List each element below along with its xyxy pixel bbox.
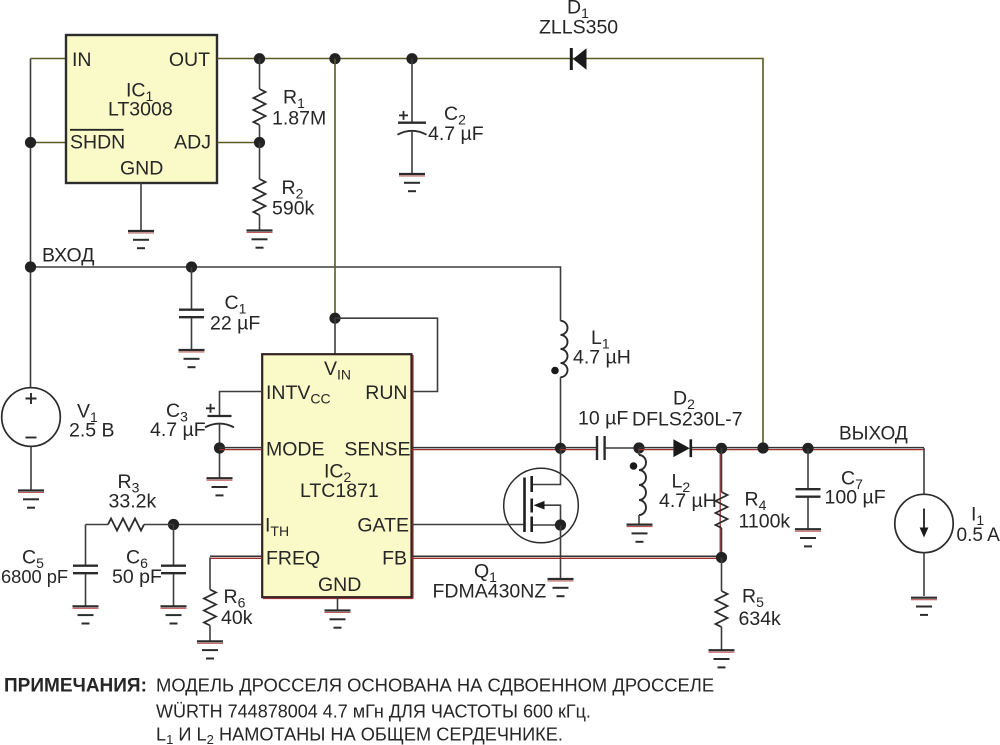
wire: RUN loop xyxy=(335,318,438,391)
svg-text:OUT: OUT xyxy=(169,49,210,71)
svg-text:ZLLS350: ZLLS350 xyxy=(539,16,618,38)
ground: L2 xyxy=(627,525,653,542)
node: OUT/R1 junction xyxy=(254,53,265,64)
node: C2 junction xyxy=(406,53,417,64)
source I1 0.5A xyxy=(895,448,953,596)
wire: MODE stub (red) xyxy=(220,447,263,449)
capacitor C7 xyxy=(807,448,809,488)
ground: IC1 GND xyxy=(128,231,154,248)
wire: SENSE stub (red) xyxy=(412,447,561,449)
capacitor C6 xyxy=(173,525,175,566)
diode D1 ZLLS350 xyxy=(571,48,586,70)
ground: C5 xyxy=(73,606,99,623)
wire: IC1 GND stub xyxy=(140,183,142,231)
wire: input left rail (IN / SHDN / VХОД vertical) xyxy=(30,59,32,389)
ground: Q1 source xyxy=(548,579,574,596)
svg-text:100 µF: 100 µF xyxy=(825,487,886,509)
ground: C1 xyxy=(179,350,205,367)
node: ITH junction xyxy=(168,519,179,530)
svg-text:10 µF: 10 µF xyxy=(578,408,628,430)
wire: VIN stub into IC2 xyxy=(334,318,336,354)
svg-text:GATE: GATE xyxy=(357,515,409,537)
node: L2 junction xyxy=(633,442,644,453)
svg-text:6800 pF: 6800 pF xyxy=(1,566,68,587)
svg-text:FREQ: FREQ xyxy=(266,548,320,570)
svg-text:4.7 µH: 4.7 µH xyxy=(659,490,717,512)
svg-text:GND: GND xyxy=(120,158,163,180)
svg-text:4.7 µF: 4.7 µF xyxy=(428,123,484,145)
capacitor C2 polarized xyxy=(411,59,413,123)
node: SHDN junction xyxy=(25,137,36,148)
svg-text:DFLS230L-7: DFLS230L-7 xyxy=(632,409,743,431)
wire: FREQ stub (red) xyxy=(210,555,262,557)
wire: Q1 source to ground xyxy=(560,525,562,579)
svg-text:ADJ: ADJ xyxy=(174,132,211,154)
inductor L2 xyxy=(638,448,640,455)
wire: V1 to ground xyxy=(30,446,32,490)
IC U2 LTC1871 box xyxy=(262,354,413,598)
svg-text:0.5 A: 0.5 A xyxy=(957,525,1000,546)
ground: C6 xyxy=(161,606,187,623)
node: D1 rail junction xyxy=(757,442,768,453)
wire: IC2 GND stub xyxy=(337,598,339,611)
svg-text:1.87M: 1.87M xyxy=(272,108,326,130)
svg-text:SHDN: SHDN xyxy=(70,132,125,154)
node: C1 junction xyxy=(186,261,197,272)
svg-text:4.7 µF: 4.7 µF xyxy=(150,419,206,441)
svg-text:590k: 590k xyxy=(272,198,315,220)
svg-text:GND: GND xyxy=(318,574,361,596)
node: switch node junction xyxy=(555,443,566,454)
resistor R1 xyxy=(259,59,261,90)
resistor R3 horizontal xyxy=(144,524,174,526)
svg-text:40k: 40k xyxy=(221,607,253,629)
svg-text:L1 И L2 НАМОТАНЫ НА ОБЩЕМ СЕРД: L1 И L2 НАМОТАНЫ НА ОБЩЕМ СЕРДЕЧНИКЕ. xyxy=(156,725,563,745)
svg-text:50 pF: 50 pF xyxy=(112,566,162,588)
wire: IN pin stub xyxy=(31,58,67,60)
svg-text:2.5 В: 2.5 В xyxy=(69,420,115,442)
wire: ADJ stub xyxy=(217,142,260,144)
transistor Q1 FDMA430NZ xyxy=(504,448,579,543)
svg-text:FB: FB xyxy=(382,548,407,570)
wire: output row (red) xyxy=(722,447,925,449)
svg-text:22 µF: 22 µF xyxy=(210,313,260,335)
ground: V1 xyxy=(18,491,44,508)
wire: SHDN pin stub xyxy=(31,142,67,144)
svg-text:634k: 634k xyxy=(739,608,782,630)
resistor R4 xyxy=(721,448,723,492)
svg-text:ВЫХОД: ВЫХОД xyxy=(839,424,908,445)
node: L2 phase dot xyxy=(630,462,638,470)
capacitor C3 polarized xyxy=(208,415,232,417)
svg-text:1100k: 1100k xyxy=(739,511,791,533)
node: FB divider junction xyxy=(716,552,727,563)
wire: L1 to switch node xyxy=(560,377,562,448)
ground: I1 xyxy=(911,598,937,615)
svg-text:LT3008: LT3008 xyxy=(108,99,173,121)
resistor R5 xyxy=(721,558,723,592)
svg-text:4.7 µH: 4.7 µH xyxy=(573,347,631,369)
node: input/V1 junction xyxy=(25,261,36,272)
wire: ITH stub xyxy=(174,524,263,526)
node: ADJ junction xyxy=(254,137,265,148)
node: C3/MODE junction xyxy=(214,442,225,453)
node: VIN rail junction xyxy=(329,53,340,64)
capacitor C1 xyxy=(191,267,193,309)
wire: GATE stub xyxy=(412,524,524,526)
wire: VIN vertical from top rail xyxy=(334,59,336,319)
svg-text:МОДЕЛЬ ДРОССЕЛЯ ОСНОВАНА НА СД: МОДЕЛЬ ДРОССЕЛЯ ОСНОВАНА НА СДВОЕННОМ ДР… xyxy=(156,675,714,696)
wire: input row to L1 xyxy=(31,267,561,321)
node: R4 junction xyxy=(716,443,727,454)
IC U1 LT3008 box xyxy=(66,35,217,183)
wire: FB stub (red) xyxy=(412,555,722,557)
ground: C2 xyxy=(399,174,425,191)
resistor R2 xyxy=(259,143,261,180)
svg-text:33.2k: 33.2k xyxy=(109,491,157,513)
svg-text:ПРИМЕЧАНИЯ:: ПРИМЕЧАНИЯ: xyxy=(4,676,147,697)
ground: R6 xyxy=(197,641,223,658)
capacitor C5 xyxy=(85,525,87,566)
node: L1 phase dot xyxy=(551,367,559,375)
diode D2 DFLS230L-7 xyxy=(639,439,722,457)
wire: top output rail through D1 xyxy=(217,59,763,448)
svg-text:RUN: RUN xyxy=(365,382,407,404)
node: VIN junction xyxy=(329,313,340,324)
ground: R2 xyxy=(247,231,273,248)
resistor R6 xyxy=(209,558,211,590)
wire: INTVCC to C3 xyxy=(220,392,263,416)
inductor L1 xyxy=(561,321,568,377)
ground: R5 xyxy=(709,650,735,667)
svg-text:ВХОД: ВХОД xyxy=(42,245,94,267)
svg-text:LTC1871: LTC1871 xyxy=(300,480,379,502)
ground: C3 xyxy=(207,478,233,495)
pin label SHDN with overline xyxy=(70,129,124,131)
ground: C7 xyxy=(795,529,821,546)
svg-text:IN: IN xyxy=(72,49,92,71)
source V1 2.5V xyxy=(2,388,61,447)
svg-text:FDMA430NZ: FDMA430NZ xyxy=(433,581,547,603)
ground: IC2 GND xyxy=(325,611,351,628)
svg-text:MODE: MODE xyxy=(266,439,325,461)
svg-text:SENSE: SENSE xyxy=(344,439,410,461)
capacitor 10uF coupling xyxy=(561,436,640,460)
node: C7 junction xyxy=(802,443,813,454)
svg-text:WÜRTH 744878004 4.7 мГн ДЛЯ ЧА: WÜRTH 744878004 4.7 мГн ДЛЯ ЧАСТОТЫ 600 … xyxy=(156,702,591,722)
